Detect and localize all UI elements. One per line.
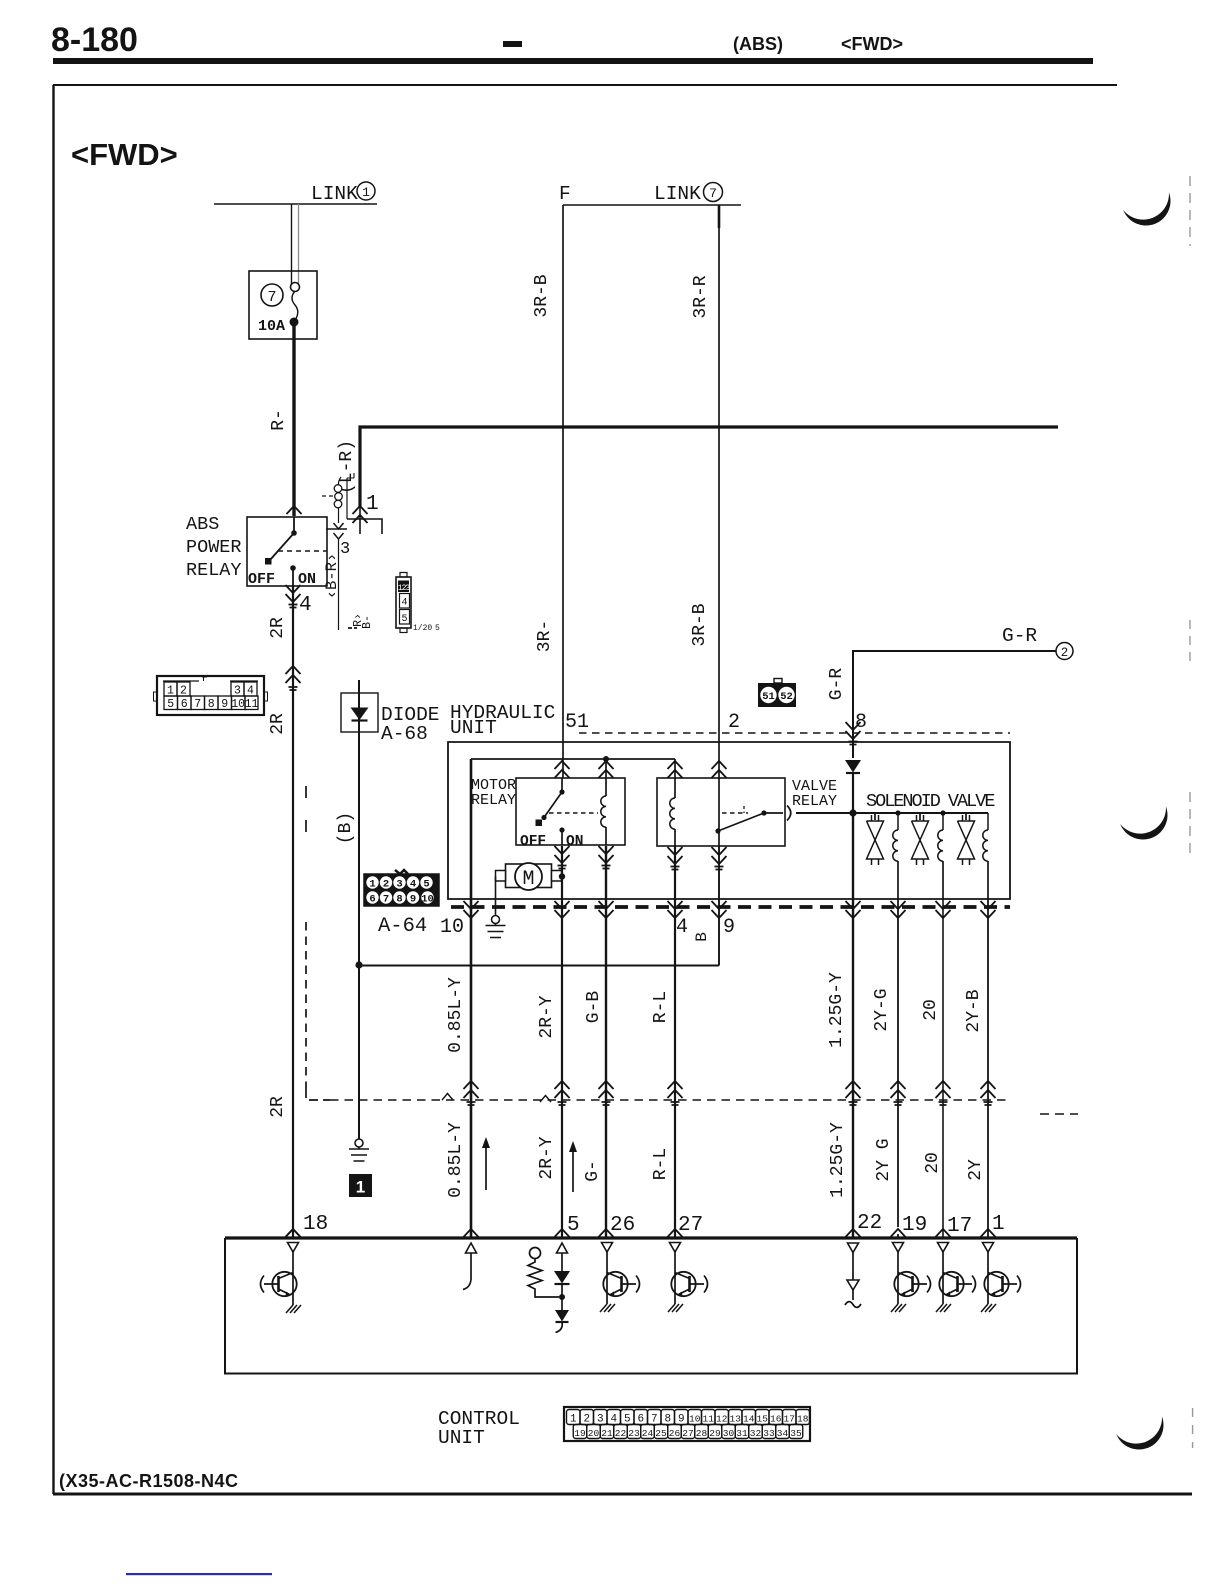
svg-text:2: 2 <box>728 711 740 734</box>
svg-text:4: 4 <box>299 594 312 617</box>
diode D2 pin 5 <box>555 1310 569 1333</box>
svg-text:4: 4 <box>410 879 416 891</box>
svg-text:19: 19 <box>902 1214 927 1237</box>
svg-text:3R-R: 3R-R <box>691 275 711 318</box>
label 3R-B top <box>532 274 552 317</box>
node LINK 1 label <box>311 182 375 205</box>
solenoid coil 1 <box>893 813 898 899</box>
svg-text:8: 8 <box>855 711 867 734</box>
pin 26 internal triangle <box>602 1243 613 1273</box>
svg-text:20: 20 <box>921 999 941 1021</box>
relay ABS power box <box>247 517 327 586</box>
harness crossing arrows 2R-Y <box>555 1081 570 1105</box>
pin 1 internal triangle <box>983 1243 994 1273</box>
svg-text:6: 6 <box>637 1414 644 1426</box>
svg-text:26: 26 <box>610 1214 635 1237</box>
header FWD tag <box>841 34 903 54</box>
wire switch to motor and pin 5 <box>561 846 563 1237</box>
svg-text:<FWD>: <FWD> <box>841 34 903 54</box>
control unit box <box>225 1238 1077 1374</box>
svg-text:12: 12 <box>716 1414 728 1425</box>
svg-text:1: 1 <box>570 1414 577 1426</box>
svg-text:B-: B- <box>361 615 374 629</box>
label (B-R) <box>323 553 341 600</box>
node circled 2 <box>1056 643 1073 661</box>
solenoid valve symbol 1 <box>867 813 884 865</box>
pin 18 entry arrow <box>286 1229 301 1237</box>
svg-text:7: 7 <box>383 894 389 906</box>
valve relay exits <box>668 847 727 870</box>
pin 22 label <box>857 1212 882 1235</box>
control unit entry arrows <box>286 1229 996 1237</box>
pin 10 label <box>440 916 464 939</box>
svg-text:5: 5 <box>423 879 429 891</box>
label 2R mid <box>268 713 288 735</box>
svg-text:8: 8 <box>208 698 215 711</box>
connector arrow at relay top <box>287 506 302 514</box>
svg-text:11: 11 <box>703 1414 715 1425</box>
chassis ground Q2 <box>600 1304 615 1312</box>
label 3R-B lower <box>690 603 710 646</box>
svg-text:2Y G: 2Y G <box>874 1138 894 1181</box>
pin 26 label <box>610 1214 635 1237</box>
junction coil 3 <box>940 810 945 815</box>
svg-text:10: 10 <box>421 894 434 906</box>
label 20 lower <box>923 1152 943 1174</box>
chassis ground Q3 <box>668 1304 683 1312</box>
junction motor to switch wire <box>559 873 565 879</box>
svg-text:2R-Y: 2R-Y <box>537 995 557 1038</box>
svg-text:2Y: 2Y <box>966 1159 986 1181</box>
svg-text:0.85L-Y: 0.85L-Y <box>446 977 466 1053</box>
svg-text:3: 3 <box>340 540 350 559</box>
relay pin 3 label <box>340 540 350 559</box>
wire 2Y-B to pin 1 <box>987 899 989 1237</box>
page number 8-180 <box>51 21 138 59</box>
junction G-R bus <box>849 809 856 816</box>
svg-text:3R-: 3R- <box>535 620 555 652</box>
harness dashed vertical left <box>306 786 330 1100</box>
harness note box 1 <box>349 1174 372 1197</box>
svg-text:(B): (B) <box>336 812 356 844</box>
wire 3R-R from LINK7 <box>718 205 721 831</box>
svg-text:8: 8 <box>396 894 402 906</box>
diode in G-R line <box>845 760 861 813</box>
svg-text:2: 2 <box>383 879 389 891</box>
svg-text:1.25G-Y: 1.25G-Y <box>828 1122 848 1198</box>
svg-text:5: 5 <box>401 614 407 625</box>
wire to ground 1 <box>358 965 360 1139</box>
harness crossing arrows 0.85L-Y <box>464 1081 479 1105</box>
wire thick top bus L-R <box>360 427 1058 507</box>
hydraulic unit box <box>448 742 1010 899</box>
label (L-R) <box>337 440 357 494</box>
svg-text:10: 10 <box>689 1414 701 1425</box>
pin 18 label <box>303 1213 328 1236</box>
svg-text:11: 11 <box>245 698 259 711</box>
svg-text:7: 7 <box>709 186 717 201</box>
svg-text:2R: 2R <box>268 617 288 639</box>
solenoid valve symbol 2 <box>912 813 929 865</box>
svg-text:M: M <box>522 868 534 891</box>
svg-text:9: 9 <box>723 916 735 939</box>
svg-text:33: 33 <box>763 1428 775 1439</box>
diode A-68 wire <box>358 680 360 965</box>
inline connector circles on coil wire <box>322 477 342 523</box>
label 0.85L-Y upper <box>446 977 466 1053</box>
svg-text:25: 25 <box>655 1428 667 1439</box>
svg-text:LINK: LINK <box>311 183 358 205</box>
svg-text:9: 9 <box>410 894 416 906</box>
connector A-64 label <box>378 915 427 938</box>
svg-text:UNIT: UNIT <box>438 1427 485 1449</box>
pin 19 exit arrows <box>891 901 906 918</box>
svg-text:19: 19 <box>574 1428 586 1439</box>
wire G-R <box>853 651 1056 758</box>
wire coil to pin 26 <box>605 846 607 1237</box>
small chevron marks on harness line <box>442 1094 551 1103</box>
svg-text:6: 6 <box>369 894 375 906</box>
label 3R- lower <box>535 620 555 652</box>
svg-text:9: 9 <box>678 1414 685 1426</box>
pin 5 exit arrows <box>555 901 570 918</box>
monitor input pin internal <box>463 1243 477 1290</box>
HYDRAULIC UNIT label <box>450 702 555 739</box>
svg-text:21: 21 <box>601 1428 613 1439</box>
svg-text:OFF: OFF <box>248 571 275 588</box>
relay pin 4 exit arrows <box>286 585 301 608</box>
svg-text:8: 8 <box>664 1414 671 1426</box>
label (B) <box>336 812 356 844</box>
svg-text:14: 14 <box>743 1414 755 1425</box>
wire B-R thin <box>338 539 340 630</box>
diode D1 pin 5 <box>554 1271 570 1310</box>
hydraulic pin 8 label <box>855 711 867 734</box>
svg-text:1: 1 <box>992 1213 1005 1236</box>
header dash <box>503 41 522 47</box>
svg-text:9: 9 <box>221 698 228 711</box>
chassis ground Q5 <box>936 1304 951 1312</box>
small inline connector icon <box>396 573 440 634</box>
svg-text:LINK: LINK <box>654 183 701 205</box>
svg-text:28: 28 <box>696 1428 708 1439</box>
CONTROL UNIT label <box>438 1408 520 1449</box>
svg-text:0.85L-Y: 0.85L-Y <box>446 1122 466 1198</box>
svg-text:POWER: POWER <box>186 537 242 558</box>
wire 1.25G-Y to pin 22 <box>852 813 854 1237</box>
wire motor monitor pin 10 <box>470 759 473 1237</box>
internal bus wire <box>471 758 674 760</box>
diode A-68 box <box>341 693 378 732</box>
pin 27 exit arrows <box>668 901 683 918</box>
svg-text:10A: 10A <box>258 318 285 335</box>
svg-text:32: 32 <box>750 1428 762 1439</box>
label 2R-Y upper <box>537 995 557 1038</box>
valve relay entry arrows switch <box>712 761 727 778</box>
motor relay exits <box>555 846 614 869</box>
svg-text:51: 51 <box>762 691 775 703</box>
svg-text:52: 52 <box>780 691 793 703</box>
svg-text:1/20: 1/20 <box>413 624 432 633</box>
transistor Q5 pin 17 <box>939 1272 975 1304</box>
pin 4 label <box>676 916 688 939</box>
label 0.85L-Y lower <box>446 1122 466 1198</box>
svg-text:27: 27 <box>682 1428 693 1439</box>
wire coil to pin 27 <box>674 846 676 1237</box>
chassis ground Q1 <box>286 1305 301 1313</box>
label B <box>693 932 711 942</box>
valve relay switch <box>715 806 783 846</box>
pin 19 internal triangle <box>893 1243 904 1273</box>
resistor R1 <box>528 1248 559 1298</box>
motor relay coil <box>601 759 606 845</box>
coil wire exit arrows <box>334 523 344 539</box>
svg-text:10: 10 <box>231 698 245 711</box>
chassis ground Q6 <box>981 1304 996 1312</box>
svg-text:4: 4 <box>676 916 688 939</box>
wire 2Y-G to pin 19 <box>897 899 899 1237</box>
header (ABS) <box>733 34 783 54</box>
label 1.25G-Y lower <box>828 1122 848 1198</box>
harness crossing arrows 1.25G-Y <box>846 1081 861 1105</box>
svg-text:123: 123 <box>398 584 411 593</box>
inline connector marks on 2R <box>286 666 301 690</box>
harness crossing arrows 20 <box>936 1081 951 1105</box>
label 2Y lower <box>966 1159 986 1181</box>
motor M <box>496 863 562 891</box>
SOLENOID VALVE label <box>866 791 995 812</box>
pin 22 exit arrows <box>846 901 861 918</box>
transistor Q6 pin 1 <box>984 1272 1020 1304</box>
label 1.25G-Y upper <box>827 972 847 1048</box>
svg-text:1: 1 <box>366 493 379 516</box>
transistor Q3 pin 27 <box>671 1272 707 1304</box>
svg-text:20: 20 <box>923 1152 943 1174</box>
tiny harness note labels <box>348 613 374 629</box>
right edge remnants <box>1190 176 1193 1448</box>
svg-text:20: 20 <box>588 1428 600 1439</box>
harness crossing arrows G- <box>599 1081 614 1105</box>
pin 27 label <box>678 1214 703 1237</box>
hydraulic pin 8 arrows <box>846 722 861 745</box>
wire 2R long run to pin 18 <box>292 585 294 1237</box>
label G- <box>583 1160 603 1182</box>
pin 17 exit arrows <box>936 901 951 918</box>
svg-text:2R: 2R <box>268 1096 288 1118</box>
svg-text:2: 2 <box>180 685 187 698</box>
harness crossing arrows 2Y-B <box>981 1081 996 1105</box>
pin 17 internal triangle <box>938 1243 949 1273</box>
pin 5 internal triangle <box>557 1243 568 1271</box>
svg-text:5: 5 <box>624 1414 631 1426</box>
svg-text:3R-B: 3R-B <box>532 274 552 317</box>
svg-text:30: 30 <box>723 1428 735 1439</box>
svg-text:17: 17 <box>947 1215 972 1238</box>
svg-text:2Y-G: 2Y-G <box>872 988 892 1031</box>
LINK7 bus line <box>563 204 741 206</box>
svg-text:5: 5 <box>167 698 174 711</box>
direction arrow near 0.85L-Y <box>482 1137 490 1190</box>
svg-text:G-B: G-B <box>584 991 604 1024</box>
svg-text:1: 1 <box>356 1178 365 1197</box>
svg-text:8-180: 8-180 <box>51 21 138 59</box>
pin 5 label <box>567 1214 580 1237</box>
ground symbol motor <box>486 916 506 938</box>
junction on bus at coil <box>603 756 609 762</box>
svg-text:4: 4 <box>247 685 254 698</box>
pin 22 internal triangles <box>845 1243 861 1307</box>
label 3R-R top <box>691 275 711 318</box>
svg-text:RELAY: RELAY <box>471 792 516 809</box>
solenoid coil 3 <box>983 813 988 899</box>
wire motor to ground <box>495 877 497 916</box>
svg-text:F: F <box>559 183 571 205</box>
wire B horizontal run <box>359 965 719 967</box>
label G-R horizontal <box>1002 625 1037 647</box>
svg-text:7: 7 <box>194 698 201 711</box>
svg-text:1: 1 <box>369 879 375 891</box>
svg-text:34: 34 <box>777 1428 789 1439</box>
svg-text:6: 6 <box>181 698 188 711</box>
ground symbol near box 1 <box>349 1139 369 1161</box>
pin 9 exit arrows <box>712 901 727 918</box>
fuse element <box>290 283 300 327</box>
motor relay OFF ON <box>520 834 583 850</box>
svg-text:16: 16 <box>770 1414 782 1425</box>
valve relay coil <box>670 759 675 846</box>
svg-text:‹B-R›: ‹B-R› <box>323 553 341 600</box>
harness crossing arrows R-L <box>668 1081 683 1105</box>
svg-text:5: 5 <box>435 624 440 633</box>
junction resistor diode <box>559 1294 565 1300</box>
svg-text:G-R: G-R <box>1002 625 1037 647</box>
control unit connector table <box>564 1407 810 1441</box>
harness crossing arrows 2Y-G <box>891 1081 906 1105</box>
relay switch <box>265 517 327 585</box>
harness dashed horizontal <box>330 1099 1010 1101</box>
wire fuse to relay R- <box>292 326 295 516</box>
svg-text:18: 18 <box>797 1414 809 1425</box>
relay OFF ON labels <box>248 571 316 588</box>
svg-text:2R: 2R <box>268 713 288 735</box>
label 2Y-G upper <box>872 988 892 1031</box>
wire fuse drop (double line) <box>292 204 299 284</box>
transistor Q4 pin 19 <box>894 1272 930 1304</box>
pin 19 label <box>902 1214 927 1237</box>
FWD title <box>71 137 178 172</box>
diode A-68 symbol <box>351 708 369 721</box>
MOTOR RELAY label <box>471 777 516 809</box>
label 2Y G lower <box>874 1138 894 1181</box>
svg-text:3: 3 <box>597 1414 604 1426</box>
solenoid coil 2 <box>938 813 943 899</box>
blue underline artifact <box>126 1573 272 1575</box>
svg-text:(ABS): (ABS) <box>733 34 783 54</box>
pin 1 exit arrows <box>981 901 996 918</box>
pin 10 exit arrows <box>464 901 479 918</box>
junction diode to B wire <box>355 961 362 968</box>
svg-text:2: 2 <box>583 1414 590 1426</box>
pin 27 internal triangle <box>670 1243 681 1273</box>
fuse 7 10A box <box>249 271 317 339</box>
solenoid valve symbol 3 <box>958 813 975 865</box>
svg-text:24: 24 <box>642 1428 654 1439</box>
svg-text:10: 10 <box>440 916 464 939</box>
hydraulic unit bottom dashed bold <box>451 905 1010 909</box>
hydraulic pin 2 label <box>728 711 740 734</box>
svg-text:G-: G- <box>583 1160 603 1182</box>
motor relay entry arrows coil <box>599 761 614 778</box>
label 2R upper <box>268 617 288 639</box>
svg-text:<FWD>: <FWD> <box>71 137 178 172</box>
svg-text:B: B <box>693 932 711 942</box>
punch hole top <box>1117 168 1170 226</box>
transistor Q1 pin 18 <box>261 1272 297 1305</box>
svg-text:1: 1 <box>362 185 370 200</box>
hydraulic pin 51 label <box>565 711 589 734</box>
harness dash remnant right <box>1040 1113 1078 1115</box>
label R- <box>269 409 289 431</box>
svg-text:1.25G-Y: 1.25G-Y <box>827 972 847 1048</box>
label 2R lower <box>268 1096 288 1118</box>
wire switch output B <box>718 846 720 966</box>
valve relay contact arc <box>787 806 791 821</box>
punch hole middle <box>1114 782 1167 840</box>
label R-L lower <box>651 1148 671 1180</box>
label 20 upper <box>921 999 941 1021</box>
punch hole bottom <box>1110 1392 1163 1450</box>
svg-text:7: 7 <box>267 289 276 306</box>
header rule <box>53 58 1093 64</box>
svg-text:17: 17 <box>784 1414 795 1425</box>
relay motor box <box>516 778 625 845</box>
svg-text:27: 27 <box>678 1214 703 1237</box>
node LINK 7 label <box>654 183 723 206</box>
svg-text:2R-Y: 2R-Y <box>537 1136 557 1179</box>
svg-text:R-: R- <box>269 409 289 431</box>
wire 20 to pin 17 <box>942 899 944 1237</box>
pin 17 label <box>947 1215 972 1238</box>
transistor Q2 pin 26 <box>603 1272 639 1304</box>
relay pin 4 label <box>299 594 312 617</box>
drawing code <box>59 1471 239 1491</box>
ABS POWER RELAY label <box>186 514 242 581</box>
svg-text:A-68: A-68 <box>381 723 428 745</box>
pin 1 label <box>992 1213 1005 1236</box>
relay valve box <box>657 778 785 846</box>
svg-text:4: 4 <box>401 598 407 609</box>
motor relay switch <box>536 778 599 845</box>
svg-text:7: 7 <box>651 1414 658 1426</box>
connector block 11pin <box>154 676 268 715</box>
svg-text:SOLENOID VALVE: SOLENOID VALVE <box>866 791 995 812</box>
svg-text:18: 18 <box>303 1213 328 1236</box>
svg-text:R-L: R-L <box>651 991 671 1023</box>
svg-text:29: 29 <box>709 1428 721 1439</box>
relay pin 1 label <box>366 493 379 516</box>
label G-B <box>584 991 604 1024</box>
svg-text:1: 1 <box>167 685 174 698</box>
label G-R vertical <box>827 668 847 701</box>
svg-text:R-L: R-L <box>651 1148 671 1180</box>
svg-text:15: 15 <box>757 1414 769 1425</box>
svg-text:5: 5 <box>567 1214 580 1237</box>
label 2R-Y lower <box>537 1136 557 1179</box>
valve relay entry arrows coil <box>668 761 683 778</box>
svg-text:RELAY: RELAY <box>186 560 242 581</box>
pin 18 internal triangle <box>288 1243 299 1273</box>
svg-text:23: 23 <box>628 1428 640 1439</box>
